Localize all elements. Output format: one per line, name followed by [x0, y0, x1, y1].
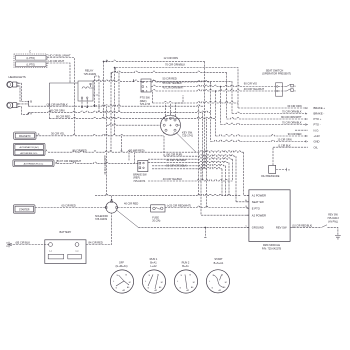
wire A1 feeder	[244, 152, 249, 195]
headlight bulb 2	[7, 102, 13, 108]
svg-text:HEADLIGHTS: HEADLIGHTS	[9, 75, 26, 79]
wire key switch feeds	[166, 95, 184, 116]
svg-text:12 CIR ORN: 12 CIR ORN	[164, 56, 179, 60]
wire 10 CIR RED/BLK	[290, 226, 293, 228]
wire 30 CIR WHT/BLK	[28, 102, 204, 107]
svg-text:(+25 CIR RED/WHT): (+25 CIR RED/WHT)	[167, 203, 191, 207]
wire bundle vertical 5	[215, 91, 217, 136]
wire ground run	[138, 226, 249, 228]
svg-text:ALTERNATOR (AC): ALTERNATOR (AC)	[19, 146, 39, 149]
wire vertical x129	[128, 152, 130, 160]
wire relay pin to 30 CIR node	[81, 99, 83, 108]
svg-text:BRAKE -: BRAKE -	[314, 112, 325, 116]
fuse F1	[151, 205, 165, 212]
wire 12 CIR ORN	[104, 60, 205, 61]
wire A2 feeder	[201, 169, 249, 215]
wire 60 CIR RED	[35, 207, 106, 209]
svg-text:BATTERY: BATTERY	[60, 230, 72, 234]
svg-text:(-): (-)	[49, 250, 51, 252]
wire 40 CIR RED	[118, 207, 151, 209]
svg-text:GROUND: GROUND	[252, 226, 264, 230]
wire 60 CIR ORN brake+	[238, 107, 308, 109]
wire bundle vertical 7	[204, 61, 206, 168]
wire 1 CIR BLK oil	[273, 146, 308, 148]
svg-text:LD CIR WHT: LD CIR WHT	[49, 59, 65, 63]
svg-text:50 CIR RED: 50 CIR RED	[163, 77, 177, 81]
wire long run 195	[95, 194, 240, 195]
wire 50 CIR ORG/BLK	[148, 161, 229, 162]
wire vertical x134	[134, 152, 136, 163]
wire relay to bus 2	[93, 80, 232, 81]
RMC module U1	[249, 190, 290, 242]
wire 70 CIR ORN/BLK (top)	[116, 68, 238, 109]
svg-text:KEY SW.: KEY SW.	[182, 130, 193, 134]
svg-text:60 CIR ORN: 60 CIR ORN	[287, 105, 301, 108]
key switch S1	[161, 115, 181, 135]
svg-text:40 CIR ORN/WHT: 40 CIR ORN/WHT	[163, 86, 185, 90]
svg-text:OIL PRESSURE: OIL PRESSURE	[261, 175, 280, 178]
svg-text:(-IN PNL): (-IN PNL)	[328, 220, 338, 223]
svg-text:E PTO: E PTO	[252, 206, 260, 210]
wire bundle vertical 4	[210, 82, 212, 142]
solenoid diagonal wire	[116, 210, 138, 228]
svg-text:C: C	[29, 50, 31, 54]
svg-text:MAGNETO: MAGNETO	[19, 135, 31, 138]
svg-text:30 CIR YEL: 30 CIR YEL	[51, 132, 65, 136]
wire N.O.	[295, 129, 308, 131]
wire 40 CIR YEL/WHT (brake)	[148, 158, 233, 159]
svg-text:M: M	[129, 282, 131, 284]
svg-text:(90 CIR PUR): (90 CIR PUR)	[166, 152, 182, 156]
svg-text:B+A1: B+A1	[182, 264, 189, 268]
wire 40 CIR RED/WHT (vertical)	[106, 106, 108, 196]
wire 25 CIR RED/WHT	[165, 206, 249, 207]
svg-text:90 CIR RED: 90 CIR RED	[288, 133, 302, 136]
connector C (electric PTO)	[14, 54, 47, 68]
svg-text:725-04374: 725-04374	[133, 180, 146, 183]
svg-text:A1: A1	[163, 117, 165, 120]
wire 80 CIR RED (alternator)	[48, 151, 244, 152]
svg-text:60 CIR RED: 60 CIR RED	[62, 204, 76, 208]
svg-text:START: START	[214, 257, 223, 261]
wire 30 CIR YEL	[36, 134, 164, 135]
wire 45 CIR GRN	[28, 111, 210, 112]
oil pressure switch	[269, 165, 276, 173]
svg-text:40 CIR YEL/WHT: 40 CIR YEL/WHT	[166, 158, 187, 162]
svg-text:M: M	[225, 282, 227, 284]
svg-text:M: M	[161, 282, 163, 284]
svg-text:SEAT SW: SEAT SW	[252, 200, 264, 204]
wire 55 CIR YEL/BLK / 90 CIR VIO	[151, 85, 276, 86]
wire vertical x119	[118, 72, 120, 112]
svg-text:725-04439: 725-04439	[95, 218, 108, 221]
svg-text:OIL: OIL	[314, 145, 319, 149]
svg-text:725-04439: 725-04439	[84, 72, 97, 76]
svg-text:45 CIR GRN: 45 CIR GRN	[50, 109, 65, 113]
svg-text:40 CIR YEL/BLK: 40 CIR YEL/BLK	[163, 177, 183, 181]
wire cluster row 4	[152, 164, 226, 165]
wire relay pin to 45 CIR node	[86, 99, 88, 108]
wire to PTO switch row	[112, 71, 227, 72]
svg-text:(L PTO): (L PTO)	[27, 64, 36, 67]
wire 10 CIR GRN gnd	[211, 140, 309, 141]
wire vertical x99	[95, 76, 99, 112]
wire 85 CIR BLK	[13, 244, 49, 246]
svg-text:GND: GND	[314, 140, 320, 144]
wire cluster row 5	[152, 167, 222, 168]
wire vertical x111	[110, 72, 112, 152]
magneto	[14, 132, 36, 139]
wire 40 CIR ORN/WHT / 40 CIR YEL/WHT	[151, 90, 276, 91]
svg-text:A1 POWER: A1 POWER	[252, 194, 266, 198]
svg-text:(85 CIR BLK: (85 CIR BLK	[16, 240, 31, 244]
svg-text:725-1741: 725-1741	[182, 134, 194, 138]
wire bundle vertical 2	[202, 112, 204, 181]
svg-text:55 CIR YEL/BLK: 55 CIR YEL/BLK	[163, 81, 183, 85]
svg-text:40 CIR RED: 40 CIR RED	[124, 202, 138, 206]
wire solenoid to bus	[111, 196, 113, 201]
headlight loop wire	[49, 83, 78, 107]
svg-text:(OPERATOR PRESENT): (OPERATOR PRESENT)	[262, 72, 291, 76]
svg-text:(90 CIR RED): (90 CIR RED)	[129, 148, 145, 152]
wire 70 CIR ORN/BLK brake-	[232, 112, 308, 113]
svg-text:80 CIR RED: 80 CIR RED	[56, 115, 70, 119]
svg-text:AFTERFIRE SOL.: AFTERFIRE SOL.	[20, 152, 38, 155]
svg-text:725-17-B: 725-17-B	[140, 103, 151, 106]
wire relay to bus	[91, 85, 100, 95]
svg-text:80 CIR RED: 80 CIR RED	[73, 148, 87, 152]
wire bundle vertical 1	[198, 106, 200, 196]
svg-text:70 CIR ORN/BLK: 70 CIR ORN/BLK	[282, 122, 302, 125]
svg-text:BRAKE +: BRAKE +	[314, 106, 326, 110]
wire bundle vertical 6	[220, 87, 222, 125]
relay K1	[78, 81, 93, 101]
svg-text:L: L	[161, 123, 162, 125]
solenoid	[106, 202, 117, 213]
alternator (AC) / afterfire solenoid	[13, 143, 45, 155]
wire HD CIR BLU/WHT	[47, 58, 74, 136]
svg-text:P/N: 725-04227B: P/N: 725-04227B	[262, 248, 282, 251]
svg-text:M: M	[193, 282, 195, 284]
wire vertical x121	[120, 136, 122, 152]
seat switch	[276, 83, 283, 96]
key switch pointer line	[176, 133, 196, 153]
PTO switch	[141, 79, 151, 92]
headlight bulb 1	[7, 82, 13, 88]
svg-text:A2 POWER: A2 POWER	[252, 213, 266, 217]
svg-text:+12V: +12V	[314, 134, 321, 138]
battery	[45, 240, 86, 264]
ground (rev switch)	[335, 236, 341, 239]
wire 80 CIR ORN/WHT pto+	[227, 118, 309, 119]
svg-text:(1 CIR BLK: (1 CIR BLK	[278, 144, 291, 147]
svg-text:40 CIR RED/WHT: 40 CIR RED/WHT	[104, 155, 107, 175]
wire bundle vertical 3	[206, 119, 208, 208]
wire 50 CIR RED	[151, 81, 211, 82]
svg-text:B+S+A1: B+S+A1	[214, 261, 224, 265]
wire seat sw feeder	[236, 201, 249, 203]
wire 97 CIR RED/WHT	[57, 162, 138, 163]
headlight harness wires	[18, 83, 21, 101]
svg-text:(B) 97 CIR RED/WHT: (B) 97 CIR RED/WHT	[56, 159, 81, 163]
svg-text:(30 CIR WHT/BLK: (30 CIR WHT/BLK	[47, 102, 68, 106]
svg-text:70 CIR ORN/BLK: 70 CIR ORN/BLK	[282, 111, 302, 114]
svg-text:(G+M+A1): (G+M+A1)	[115, 264, 127, 268]
wire vertical x114	[114, 68, 116, 136]
svg-text:B: B	[30, 100, 32, 104]
svg-text:N.O.: N.O.	[314, 128, 320, 132]
svg-text:L+A2: L+A2	[150, 264, 157, 268]
wire LD CIR WHT	[47, 63, 70, 83]
wire 40 CIR YEL/BLK	[148, 180, 233, 181]
node B (headlight junction)	[28, 101, 30, 103]
wire 90 CIR RED +12V	[216, 135, 309, 136]
svg-text:(L PTO): (L PTO)	[27, 57, 36, 60]
wire to key switch M pin	[107, 124, 161, 125]
wire stub below ground run	[204, 227, 206, 237]
svg-text:STARTER: STARTER	[19, 209, 30, 212]
wire 90 CIR PUR	[164, 155, 236, 156]
ground (battery)	[6, 242, 10, 248]
svg-text:PTO -: PTO -	[314, 123, 321, 127]
wire vertical x95	[94, 76, 96, 106]
svg-text:70 CIR ORN/BLK: 70 CIR ORN/BLK	[165, 62, 185, 66]
svg-text:10 CIR GRN: 10 CIR GRN	[278, 139, 292, 142]
wire vertical x103	[103, 61, 105, 118]
svg-text:40 CIR YEL/WHT: 40 CIR YEL/WHT	[244, 87, 265, 91]
alternator (DC)	[13, 160, 54, 167]
svg-text:PTO +: PTO +	[314, 117, 322, 121]
wire 70 CIR ORN/BLK pto-	[221, 123, 309, 124]
node A (headlight junction)	[28, 113, 30, 115]
svg-text:(10 CIR RED/BLK): (10 CIR RED/BLK)	[292, 224, 312, 227]
svg-text:B+A1: B+A1	[150, 260, 157, 264]
svg-text:80 CIR ORN/WHT: 80 CIR ORN/WHT	[281, 116, 302, 119]
svg-text:84 CIR RED: 84 CIR RED	[89, 240, 103, 244]
starter	[14, 205, 36, 213]
svg-text:RUN 2: RUN 2	[182, 261, 190, 265]
svg-text:ALTERNATOR (DC): ALTERNATOR (DC)	[24, 163, 44, 166]
svg-text:(+): (+)	[76, 250, 79, 252]
svg-text:OFF: OFF	[119, 261, 125, 265]
svg-text:REV SW: REV SW	[276, 226, 287, 230]
svg-text:HD CIR BLU/WHT: HD CIR BLU/WHT	[49, 54, 71, 58]
svg-text:20 (2A): 20 (2A)	[152, 220, 160, 223]
svg-text:RUN 1: RUN 1	[150, 257, 158, 261]
svg-text:90 CIR VIO: 90 CIR VIO	[244, 81, 257, 85]
brake switch	[138, 160, 148, 171]
wire 80 CIR RED (lights)	[49, 117, 215, 118]
wire 84 CIR RED	[86, 213, 112, 244]
